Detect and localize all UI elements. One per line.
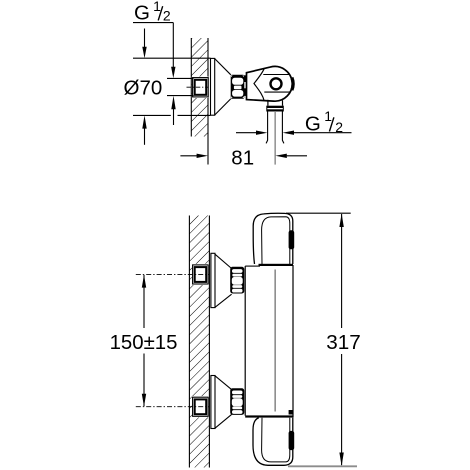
svg-text:81: 81 — [231, 146, 254, 169]
svg-text:1: 1 — [324, 108, 332, 124]
svg-text:G: G — [305, 113, 321, 136]
svg-text:317: 317 — [326, 331, 361, 354]
svg-text:Ø70: Ø70 — [124, 77, 163, 100]
svg-text:1: 1 — [153, 0, 161, 14]
svg-text:150±15: 150±15 — [110, 332, 178, 354]
svg-text:G: G — [134, 1, 150, 24]
svg-text:2: 2 — [163, 8, 171, 24]
svg-text:2: 2 — [335, 119, 343, 135]
